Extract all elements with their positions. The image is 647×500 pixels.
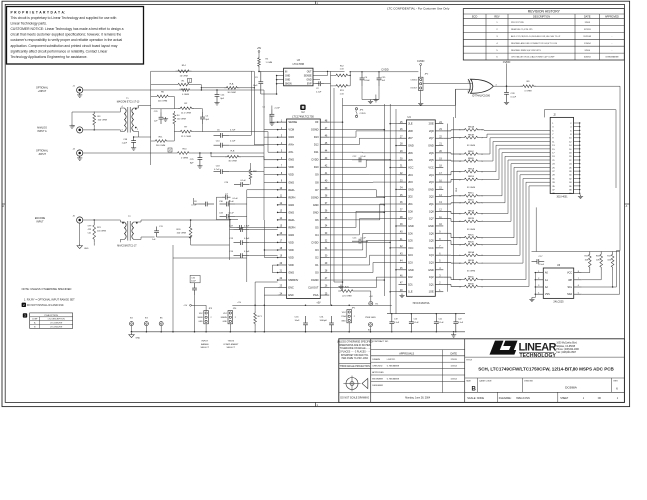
U4 pin 40 1D6 [399,232,407,234]
svg-text:0.1uF: 0.1uF [511,97,517,99]
svg-text:MA/COM ETC1-1T-13: MA/COM ETC1-1T-13 [117,101,140,104]
svg-text:D7: D7 [315,188,319,192]
vertical feed lines right of input network [250,71,252,135]
U3 output wires [320,70,345,72]
XOR output wire [493,85,520,87]
svg-text:GND: GND [313,210,319,214]
svg-text:customer's responsibility to v: customer's responsibility to verify prop… [11,38,123,42]
svg-text:698A-6.DSN: 698A-6.DSN [516,397,530,400]
svg-text:D11: D11 [314,150,319,154]
svg-text:OGND: OGND [311,278,319,282]
svg-text:SCALE: NONE: SCALE: NONE [467,397,484,400]
capacitor C29 1uF [160,112,162,117]
svg-text:PCA OPTION: PCA OPTION [44,314,58,317]
U4 pin 36 2D1 [399,203,407,205]
svg-text:NOTE: UNLESS OTHERWISE SPECIFI: NOTE: UNLESS OTHERWISE SPECIFIED [22,287,72,291]
ground at caps row [453,333,455,335]
U3 pin OUT [313,70,320,72]
U2 pin 27 OGND [320,279,329,281]
capacitor C32 10uF [190,275,200,282]
U4 pin 31 VCC [399,166,407,168]
sheet outer border [2,1,630,406]
svg-text:D2: D2 [315,255,319,259]
svg-text:RANGE: RANGE [201,343,209,346]
svg-text:TITLE: TITLE [466,360,472,362]
capacitor C25 8pF [199,153,201,158]
junction [201,87,202,88]
proprietary data box [7,7,144,65]
svg-text:221 OHM: 221 OHM [342,295,352,297]
U4 pin 48 1LE [399,291,407,293]
svg-text:1Q4: 1Q4 [429,254,434,257]
svg-text:CHG VALUE ON DLC/ALD'S MKE C&P: CHG VALUE ON DLC/ALD'S MKE C&P COMP [511,56,555,59]
U3 input stub [276,70,278,72]
svg-text:C41: C41 [88,232,91,234]
svg-text:CUSTOMER NOTICE: Linear Techn: CUSTOMER NOTICE: Linear Technology has m… [11,27,124,31]
svg-text:CVOUT: CVOUT [410,88,418,90]
svg-text:1D7: 1D7 [408,218,413,221]
svg-text:ADD C17,C8,RL11-14,DUS-BLDI UR: ADD C17,C8,RL11-14,DUS-BLDI UR,UH CHG T1… [511,35,561,38]
wire to U2 AIN+ pin 4 [254,144,277,146]
U4 pin 1 1OE [435,291,443,293]
svg-text:33 OHM: 33 OHM [467,271,475,273]
svg-text:VCC: VCC [567,272,572,275]
svg-text:GND: GND [306,80,311,82]
svg-text:CHECKED: CHECKED [372,366,383,368]
U2 pin 38 OGND [320,196,329,198]
U2 ENC wires to bottom [264,294,277,296]
svg-text:0.1uF: 0.1uF [229,212,235,214]
CVDD rail [350,71,418,73]
XOR input wires [456,83,472,85]
U4 pin 27 2D7 [399,137,407,139]
svg-text:1630 McCarthy Blvd.: 1630 McCarthy Blvd. [556,342,577,345]
svg-text:CVDD: CVDD [360,113,367,115]
svg-text:2OE: 2OE [429,123,434,126]
svg-text:2Q5: 2Q5 [429,159,434,162]
U4 pin 45 GND [399,269,407,271]
svg-text:BYP: BYP [307,84,312,86]
resistor R5 1 OHM vertical [258,56,261,68]
svg-text:2LE: 2LE [408,123,413,126]
U2 pin 39 D7 [320,189,329,191]
svg-text:circuit that meets customer-su: circuit that meets customer-supplied spe… [11,33,122,37]
svg-text:GND: GND [288,203,294,207]
U4 pin 20 2Q6 [435,152,443,154]
U2 pin 8 VDD [278,174,287,176]
svg-text:OGND: OGND [311,195,319,199]
junction dots on +5V rail [254,305,256,307]
U2 pin 26 CLKOUT [320,287,329,289]
resistor RW vertical [249,168,252,182]
U4 pin 18 VCC [435,166,443,168]
svg-text:VCC: VCC [408,166,413,169]
U2 pin 10 REFL [278,189,287,191]
svg-text:DWG/NO: DWG/NO [524,381,533,383]
U6 pin 1 A0 [535,272,543,274]
svg-text:4.7uF: 4.7uF [230,130,236,132]
svg-text:VD2: VD2 [199,313,203,315]
U2 pin 33 D4 [320,234,329,236]
capacitor C19 0.1uF [391,314,393,322]
connector J2 [550,117,573,193]
svg-text:0.1uF: 0.1uF [414,322,420,324]
svg-text:THIRD ANGLE PROJECTION: THIRD ANGLE PROJECTION [340,365,371,368]
svg-text:ENGINEER: ENGINEER [372,378,383,380]
U6 wires to pullups [532,251,621,253]
ground top right of U2 [375,98,377,100]
U4 pin 42 VCC [399,247,407,249]
svg-text:TECHNOLOGY: TECHNOLOGY [520,353,557,359]
svg-text:DATE: DATE [584,16,591,19]
resistor R20 100 OHM [189,224,192,241]
revision history table [463,9,624,60]
svg-text:GND: GND [84,248,89,250]
svg-text:3: 3 [122,129,123,131]
+5V rail below U2 [232,304,391,306]
svg-text:2: 2 [211,317,212,319]
svg-text:1D3: 1D3 [408,261,413,264]
svg-text:1/13/04: 1/13/04 [584,43,592,45]
svg-text:GND: GND [428,188,434,191]
wire row to U2 AIN- pin 5 [202,131,268,133]
svg-text:AIN-: AIN- [288,150,293,154]
svg-text:REMOVE C5,/C26 JP5: REMOVE C5,/C26 JP5 [511,29,533,31]
capacitor C38 1.2pF [133,137,135,141]
svg-text:9/27/03: 9/27/03 [584,29,592,31]
svg-text:OGND: OGND [311,128,319,132]
U4 pin 15 GND [435,188,443,190]
svg-text:VD2: VD2 [223,313,227,315]
capacitor C24 8pF [216,90,218,95]
svg-text:+5V: +5V [316,303,321,305]
svg-text:Phone: (408)432-1900: Phone: (408)432-1900 [556,349,579,351]
svg-text:10uF: 10uF [253,85,258,87]
svg-text:Fax: (408)434-0507: Fax: (408)434-0507 [556,352,577,354]
svg-text:0.1uF: 0.1uF [361,237,367,239]
resistor R3 100 OHM [93,112,96,128]
U2 pin 13 GND [278,211,287,213]
U2 pin 17 VDD [278,241,287,243]
U2 pin 15 REFH [278,226,287,228]
svg-text:INPUT A: INPUT A [37,130,47,133]
svg-text:DRAWN: DRAWN [372,358,380,361]
wire J4 to R10 [83,152,175,154]
svg-text:TWOS: TWOS [228,341,235,343]
svg-text:GND: GND [288,158,294,162]
svg-text:4.7uF: 4.7uF [214,169,220,171]
svg-text:PER ASME Y14.5M -1994: PER ASME Y14.5M -1994 [342,357,369,360]
svg-text:REV: REV [614,381,619,383]
svg-text:OF: OF [598,397,602,400]
svg-text:GND: GND [285,80,290,82]
U2 pin 9 GND [278,181,287,183]
U2 pin 35 D6 [320,219,329,221]
svg-text:2D5: 2D5 [408,159,413,162]
svg-text:GND: GND [288,271,294,275]
ground below C4 C35 [370,100,372,102]
svg-text:GND: GND [198,321,203,323]
svg-text:ECO: ECO [472,16,477,19]
svg-text:LINEAR: LINEAR [519,341,557,353]
svg-text:SENSE: SENSE [304,75,312,77]
U2 pin 22 MSBINV [278,279,287,281]
svg-text:VCC: VCC [428,247,433,250]
svg-text:REVISED RMW S,W CIRCUITS: REVISED RMW S,W CIRCUITS [511,50,541,52]
resistor R21 100 OHM [93,222,96,242]
svg-text:33 OHM: 33 OHM [467,187,475,189]
svg-text:SDA: SDA [567,293,572,296]
U4 power pin wires to rails [390,123,398,125]
svg-text:GND: GND [408,145,414,148]
svg-text:7/3/03: 7/3/03 [584,22,590,24]
ground symbol below U2 pins [401,294,403,296]
svg-text:2.2uF: 2.2uF [275,108,281,110]
svg-text:SCH, LTC1749CFW/LTC1750CFW, 12: SCH, LTC1749CFW/LTC1750CFW, 12/14-BIT,80… [478,367,614,372]
U4 pin 28 GND [399,145,407,147]
U2 pin 4 AIN+ [278,144,287,146]
svg-text:0.1uF: 0.1uF [229,201,235,203]
svg-text:30 OHM: 30 OHM [227,92,235,94]
svg-text:CAGE CODE: CAGE CODE [479,380,492,383]
ground rail bottom [132,331,466,333]
wire bus resistor networks to J2 connector [481,129,551,132]
IC U4 74VCX16373A [407,120,436,296]
svg-text:10K: 10K [585,260,589,262]
U4 pin 24 2OE [435,123,443,125]
U2 pin 28 D0 [320,272,329,274]
svg-text:1OE: 1OE [429,291,434,294]
svg-text:PGA: PGA [313,293,319,297]
svg-text:11/25/03: 11/25/03 [583,36,592,38]
U2 pin 25 PGA [320,294,329,296]
svg-text:This circuit is proprietary to: This circuit is proprietary to Linear Te… [11,16,117,20]
svg-text:GND: GND [288,135,294,139]
capacitor C4 6.8uF [361,72,363,78]
resistor R4 100 OHM vertical [173,111,176,126]
svg-text:SCL: SCL [567,286,572,289]
XOR gate U7 IDT74ALVC1G86 [471,79,494,93]
svg-text:1Q2: 1Q2 [429,276,434,279]
svg-text:CONTRACT NO: CONTRACT NO [372,340,388,343]
U6 pin 6 SCL [574,286,582,288]
U2 pin 46 D13 [320,136,329,138]
svg-text:2Q6: 2Q6 [429,152,434,155]
U4 OE CLK lines [447,124,449,292]
svg-text:4: 4 [122,106,123,108]
U4 pin 16 2Q3 [435,181,443,183]
svg-text:GND: GND [341,320,346,322]
svg-text:200 OHM: 200 OHM [158,100,168,102]
svg-text:COMPLEMENT: COMPLEMENT [223,344,239,346]
svg-text:1Q1: 1Q1 [429,283,434,286]
svg-text:Technology Applications Engine: Technology Applications Engineering for … [11,55,88,59]
wire J5 to T2 [83,219,121,221]
svg-text:0 OHM: 0 OHM [525,91,532,93]
wire encode vertical to rail [172,258,174,332]
U4 pin 33 2D3 [399,181,407,183]
svg-text:1000pF: 1000pF [320,320,328,322]
U4 pin 37 1D8 [399,210,407,212]
capacitor C26 0.1uF [234,184,241,186]
svg-text:SENS: SENS [197,317,203,319]
U2 pin 21 GND [278,272,287,274]
svg-text:REVISION HISTORY: REVISION HISTORY [528,10,561,14]
U2 pin 42 D10 [320,166,329,168]
svg-text:D8: D8 [315,180,319,184]
svg-text:Linear Technology parts.: Linear Technology parts. [11,22,47,26]
svg-text:VCM: VCM [288,128,294,132]
wires from caps to U2 lower pins [249,229,277,231]
svg-text:DESCRIPTION: DESCRIPTION [533,16,550,19]
svg-text:1D1: 1D1 [408,283,413,286]
U4 pin 17 2Q4 [435,174,443,176]
svg-text:D6: D6 [315,218,319,222]
svg-text:30 OHM: 30 OHM [228,160,236,162]
capacitor C5 8pF [202,112,204,117]
svg-text:DATE: DATE [450,352,457,355]
svg-text:2D7: 2D7 [408,137,413,140]
svg-text:1Q8: 1Q8 [429,210,434,213]
svg-text:33 OHM: 33 OHM [467,229,475,231]
svg-text:GND: GND [408,225,414,228]
svg-text:LTC1749CFW: LTC1749CFW [50,323,62,325]
U4 pin 39 GND [399,225,407,227]
IC U2 LTC1749/LTC1750 [287,119,321,298]
svg-text:CLK: CLK [456,187,458,192]
svg-text:D12: D12 [314,143,319,147]
wire bus U4 outputs to resistor networks [443,130,451,132]
svg-text:10 OHM: 10 OHM [180,75,188,77]
wire to pin 13 [216,219,238,221]
U4 pin 32 2D4 [399,174,407,176]
svg-text:CVDD: CVDD [503,60,511,64]
svg-text:D1: D1 [315,263,319,267]
svg-text:REFH: REFH [288,225,295,229]
U6 pin 8 VCC [574,272,582,274]
svg-text:CVDD: CVDD [381,68,388,72]
U2 pin 30 D2 [320,256,329,258]
svg-text:2Q3: 2Q3 [429,181,434,184]
third angle projection symbol [346,378,358,390]
ground below rails [340,285,342,287]
U4 pin 22 2Q7 [435,137,443,139]
U3 pin SHDN [277,83,284,85]
svg-text:3010-4001: 3010-4001 [557,196,569,198]
U2 pin 31 D3 [320,249,329,251]
svg-text:1.1K: 1.1K [340,93,345,95]
svg-text:2: 2 [235,317,236,319]
ground below C28 [506,101,508,103]
svg-text:APPROVED: APPROVED [372,371,384,374]
resistor RY1 [254,311,257,326]
U4 pin 47 1D1 [399,283,407,285]
U2 logo and label [300,105,305,110]
U2 power pin wires to rails [329,121,342,123]
U3 pin GND [277,79,284,81]
svg-text:1Q6: 1Q6 [429,232,434,235]
U4 pin 34 GND [399,188,407,190]
svg-text:0.1uF: 0.1uF [458,322,464,324]
IC U6 24LC025 [543,268,573,298]
svg-text:2D3: 2D3 [408,181,413,184]
U2 pin 12 GND [278,204,287,206]
jumper JP6 CVDD [355,108,357,110]
svg-text:D10: D10 [314,165,319,169]
U2 pin 19 VDD [278,256,287,258]
svg-text:6/28/04: 6/28/04 [584,57,592,59]
U4 pin 23 2Q8 [435,130,443,132]
svg-text:0 OHM: 0 OHM [182,94,189,96]
U6 pin 3 A2 [535,286,543,288]
svg-text:10uF: 10uF [295,320,301,322]
vertical wires to U2 left mid pins [246,196,248,282]
U2 pin 29 D1 [320,264,329,266]
svg-text:IN: IN [285,71,288,73]
U6 pin 4 VSS [535,293,543,295]
svg-text:VDD: VDD [288,173,294,177]
svg-text:G. REDMAYNE: G. REDMAYNE [387,377,400,380]
capacitor C22 0.1uF [455,314,457,322]
capacitor C1 2.2uF [271,109,273,114]
U2 pin 18 VDD [278,249,287,251]
U3 pin BYP [313,83,320,85]
U3 pin GND [313,79,320,81]
svg-text:1/13/04: 1/13/04 [451,366,457,368]
svg-text:1D6: 1D6 [408,232,413,235]
svg-text:VCC: VCC [408,247,413,250]
U4 pin 10 GND [435,225,443,227]
svg-text:2D2: 2D2 [408,196,413,199]
junction dots on ground rail [131,331,133,333]
svg-text:CVDD2: CVDD2 [410,79,418,81]
U4 pin 44 1D3 [399,261,407,263]
vertical line x536 connector region [535,207,537,251]
svg-text:B: B [472,386,477,392]
U6 ground rail [534,273,536,298]
svg-text:OF: OF [315,120,319,124]
ground symbol GND rail [131,333,133,335]
svg-text:2Q4: 2Q4 [429,174,434,177]
resistor R13 1.1K [333,85,350,88]
wire across bottom encode [172,245,174,258]
border zone ticks [315,1,317,4]
svg-text:2D4: 2D4 [408,174,413,177]
wires into U2 left pins [277,121,279,123]
svg-text:VDD: VDD [288,255,294,259]
U3 ground rail below [261,93,277,95]
svg-text:REFL: REFL [288,218,295,222]
U4 pin 11 1Q7 [435,218,443,220]
U4 pin 38 1D7 [399,218,407,220]
U6 pin 2 A1 [535,279,543,281]
svg-text:VDD: VDD [288,248,294,252]
svg-text:REFL: REFL [288,188,295,192]
IC U3 LTC1763 [284,68,313,86]
U4 pin 5 1Q3 [435,261,443,263]
Linear Technology logo [490,341,518,355]
svg-text:DO NOT INSTALL R1 AND R10.: DO NOT INSTALL R1 AND R10. [27,303,65,307]
svg-text:6.8uF: 6.8uF [365,80,371,82]
U2 pin 6 GND [278,159,287,161]
svg-text:VCC: VCC [428,166,433,169]
svg-text:D0: D0 [315,271,319,275]
svg-text:100 OHM: 100 OHM [98,119,108,121]
wires U2 left pins 2 3 6 7 8 9 10 11 [264,129,278,131]
svg-text:1 OHM: 1 OHM [266,62,273,64]
svg-text:GND: GND [428,145,434,148]
svg-text:100 OHM: 100 OHM [97,230,106,232]
